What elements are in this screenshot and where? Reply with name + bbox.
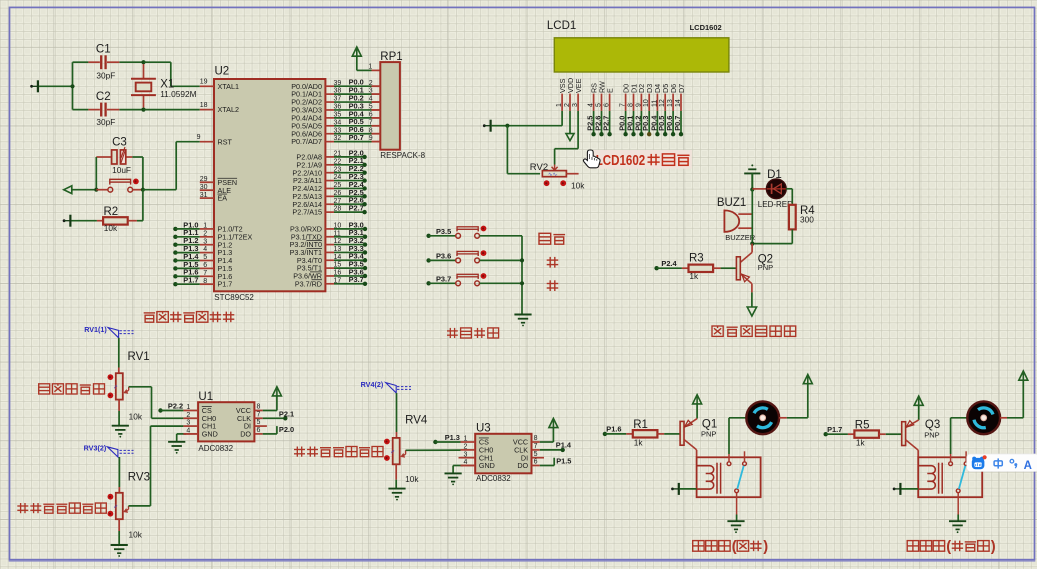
pin 8 VCC wire [254, 396, 277, 410]
svg-text:5: 5 [257, 419, 261, 426]
svg-text:E: E [605, 88, 614, 93]
svg-text:1: 1 [368, 64, 372, 71]
LCD pin 9 D2 [633, 84, 646, 137]
power terminal (U3) [549, 418, 558, 428]
svg-text:6: 6 [534, 459, 538, 466]
svg-text:P1.5: P1.5 [556, 456, 571, 465]
net P3.7 wire [325, 275, 367, 286]
wire (VEE) [555, 111, 579, 165]
net P0.4 wire [325, 109, 380, 118]
svg-text:37: 37 [334, 96, 342, 103]
power terminal (U1) [272, 387, 281, 397]
ground (relay2) [949, 521, 966, 533]
svg-text:3: 3 [572, 103, 579, 107]
svg-text:7: 7 [203, 270, 207, 277]
wire (RV1 wiper to CH0) [129, 387, 184, 419]
potentiometer RV4 [384, 414, 428, 484]
wire [507, 126, 540, 174]
svg-text:LCD1602: LCD1602 [690, 23, 722, 32]
svg-text:RST: RST [218, 137, 233, 146]
svg-text:P1.7: P1.7 [218, 280, 233, 289]
ground tap (crystal net) [30, 80, 72, 92]
svg-text:31: 31 [200, 192, 208, 199]
ADC U1 ADC0832 [183, 391, 254, 453]
svg-text:4: 4 [203, 246, 207, 253]
node [141, 188, 145, 192]
wire [144, 109, 200, 111]
svg-text:DO: DO [240, 430, 251, 439]
ground (U1) [168, 442, 185, 454]
pin 1 / net P1.0 [173, 220, 214, 231]
svg-text:RV3(2): RV3(2) [84, 443, 107, 452]
caption: formaldehyde threshold [294, 447, 383, 457]
svg-text:U2: U2 [215, 66, 230, 78]
net P1.3 [433, 433, 460, 444]
svg-text:10k: 10k [129, 412, 143, 422]
svg-text:VEE: VEE [574, 78, 583, 93]
ground arrow (Q2) [747, 307, 756, 316]
resistor R4 [789, 205, 815, 230]
svg-text:P1.3: P1.3 [445, 433, 460, 442]
svg-text:38: 38 [334, 88, 342, 95]
wire [118, 457, 120, 487]
net P2.7 wire [325, 204, 366, 215]
svg-text:RP1: RP1 [380, 51, 402, 63]
svg-text:BUZ1: BUZ1 [717, 197, 746, 209]
svg-text:12: 12 [334, 238, 342, 245]
wire [752, 188, 767, 190]
LCD pin 2 VDD [564, 78, 575, 111]
power terminal down (VDD) [566, 111, 574, 141]
svg-text:24: 24 [334, 174, 342, 181]
pin 31 [200, 192, 214, 199]
caption: plus [547, 257, 559, 268]
svg-text:32: 32 [334, 135, 342, 142]
pin 29 [200, 176, 214, 183]
svg-text:Q1: Q1 [702, 418, 717, 430]
svg-text:∿: ∿ [114, 504, 120, 509]
LCD pin 13 D6 [665, 84, 678, 137]
svg-text:14: 14 [334, 254, 342, 261]
wire [118, 411, 120, 426]
net P3.4 wire [325, 252, 367, 263]
svg-text:D1: D1 [767, 169, 782, 181]
svg-text:U1: U1 [198, 391, 213, 403]
net P2.2 wire [325, 164, 366, 175]
wire [118, 531, 120, 545]
svg-text:300: 300 [800, 215, 814, 225]
net P2.1 [254, 410, 294, 421]
relay contacts [949, 451, 968, 514]
net P2.4 [654, 259, 682, 271]
svg-text:7: 7 [534, 443, 538, 450]
LCD pin 5 RW [594, 81, 607, 136]
relay coil [697, 466, 714, 489]
LCD pin 3 VEE [572, 78, 583, 110]
LCD pin 7 D0 [618, 84, 631, 137]
svg-text:(: ( [732, 539, 737, 555]
wire (VSS) [507, 111, 562, 126]
svg-text:6: 6 [604, 103, 611, 107]
svg-text:8: 8 [534, 435, 538, 442]
svg-text:(: ( [946, 539, 951, 555]
svg-text:P1.4: P1.4 [556, 441, 572, 450]
net P1.5 [532, 456, 572, 465]
crystal X1 [131, 64, 197, 108]
svg-text:27: 27 [334, 198, 342, 205]
wire (RV3 wiper to CH1) [129, 426, 184, 506]
node [520, 258, 524, 262]
pin 6 / net P1.5 [173, 260, 214, 271]
svg-text:P2.0: P2.0 [279, 425, 294, 434]
LCD pin 14 D7 [673, 84, 686, 137]
net P2.0 [254, 425, 294, 434]
svg-text:30pF: 30pF [96, 70, 115, 80]
svg-text:8: 8 [257, 404, 261, 411]
capacitor C2 [88, 91, 119, 127]
svg-text:25: 25 [334, 182, 342, 189]
net P2.1 wire [325, 156, 366, 167]
net P2.6 wire [325, 196, 366, 207]
svg-text:): ) [991, 539, 996, 555]
power terminal (motor2) [1019, 371, 1028, 381]
pin 8 VCC wire [532, 428, 554, 442]
svg-text:23: 23 [334, 166, 342, 173]
svg-text:LCD1: LCD1 [547, 20, 576, 32]
svg-text:P2.2: P2.2 [168, 402, 183, 411]
power terminal (Q1) [693, 395, 702, 419]
capacitor C1 [88, 44, 119, 81]
ground tap (relay2 coil) [893, 483, 919, 495]
potentiometer RV2 [530, 162, 585, 190]
svg-text:3: 3 [186, 420, 190, 427]
net P3.6 wire [325, 267, 367, 278]
caption: relay (fan) [693, 539, 769, 555]
net P0.1 wire [325, 86, 380, 95]
relay RL2 frame [918, 457, 982, 497]
buzzer BUZ1 [717, 197, 756, 242]
transistor Q3 PNP [902, 419, 941, 457]
svg-text:33: 33 [334, 127, 342, 134]
svg-text:P0.7: P0.7 [673, 116, 682, 131]
svg-text:RESPACK-8: RESPACK-8 [380, 151, 425, 160]
power terminal (motor1) [803, 375, 812, 385]
svg-text:C2: C2 [96, 91, 111, 103]
svg-text:4: 4 [588, 103, 595, 107]
wire (U1 GND) [177, 434, 198, 442]
svg-text:P3.7/RD: P3.7/RD [295, 279, 322, 288]
resistor R3 [682, 253, 737, 281]
svg-text:∿∿: ∿∿ [548, 172, 558, 178]
svg-text:15: 15 [334, 262, 342, 269]
wire [395, 480, 397, 489]
node [94, 188, 98, 192]
svg-text:18: 18 [200, 102, 208, 109]
svg-text:5: 5 [596, 103, 603, 107]
arrow terminal (reset) [64, 186, 97, 194]
svg-text:PNP: PNP [924, 430, 939, 439]
capacitor C3 [96, 137, 132, 175]
fan motor 2 [967, 401, 1000, 434]
net P0.5 wire [325, 117, 380, 126]
svg-text:22: 22 [334, 158, 342, 165]
MCU U2 STC89C52 [214, 66, 325, 303]
caption: independent keys [447, 328, 499, 338]
fan motor 1 [746, 401, 779, 434]
svg-text:10k: 10k [129, 529, 143, 539]
svg-text:PNP: PNP [701, 430, 716, 439]
pin 2 / net P1.1 [173, 228, 214, 239]
ground (relay1) [727, 521, 744, 533]
wire [736, 515, 738, 522]
svg-text:36: 36 [334, 104, 342, 111]
svg-text:34: 34 [334, 119, 342, 126]
ground (buttons) [514, 315, 531, 327]
svg-text:GND: GND [479, 461, 495, 470]
svg-text:6: 6 [257, 427, 261, 434]
potentiometer RV3 [108, 471, 150, 539]
svg-text:RV2: RV2 [530, 162, 548, 173]
svg-text:12: 12 [659, 99, 666, 107]
net P3.0 wire [325, 220, 367, 231]
ADC U3 ADC0832 [461, 422, 532, 483]
svg-text:30pF: 30pF [96, 117, 115, 127]
svg-text:16: 16 [334, 270, 342, 277]
pin 8 / net P1.7 [173, 276, 214, 287]
net P1.7 [824, 425, 848, 437]
caption: smoke threshold [39, 384, 105, 394]
power terminal (Q3) [914, 396, 923, 420]
wire (RST net) [143, 142, 200, 190]
svg-text:RV4(2): RV4(2) [361, 380, 384, 389]
IME toolbar [967, 454, 1037, 472]
svg-text:P2.7: P2.7 [349, 204, 364, 213]
caption: LCD1602 display [588, 150, 692, 169]
svg-text:10: 10 [643, 99, 650, 107]
net label RV4(2) [361, 380, 411, 393]
svg-text:8: 8 [628, 103, 635, 107]
node (C2/XTAL2) [141, 108, 145, 112]
net label RV1(1) [84, 325, 133, 338]
relay contacts [727, 451, 746, 514]
svg-text:11.0592M: 11.0592M [160, 89, 196, 99]
net P2.3 wire [325, 172, 366, 183]
net P2.2 [158, 402, 183, 413]
caption: sound-light alarm [712, 326, 796, 336]
svg-text:∿: ∿ [390, 449, 396, 454]
LCD pin 1 VSS [556, 78, 567, 110]
wire [751, 292, 753, 307]
node (C1/XTAL1) [141, 60, 145, 64]
svg-text:1k: 1k [634, 437, 644, 447]
push button P3.5 [426, 226, 522, 239]
ground (RV1) [112, 426, 129, 438]
mouse cursor [583, 150, 600, 168]
svg-text:19: 19 [200, 79, 208, 86]
svg-text:P3.5: P3.5 [436, 227, 451, 236]
svg-text:P2.7/A15: P2.7/A15 [292, 208, 322, 217]
svg-text:29: 29 [200, 176, 208, 183]
svg-text:10k: 10k [571, 180, 585, 190]
svg-text:13: 13 [667, 99, 674, 107]
svg-text:RV4: RV4 [405, 414, 428, 426]
wire [73, 62, 144, 109]
wire [957, 515, 959, 522]
net P2.4 wire [325, 180, 366, 191]
net P3.5 wire [325, 260, 367, 271]
svg-text:8: 8 [203, 278, 207, 285]
svg-text:6: 6 [203, 262, 207, 269]
resistor R5 [848, 420, 901, 448]
svg-text:11: 11 [651, 100, 658, 107]
svg-text:2: 2 [203, 230, 207, 237]
caption: MCU minimal system [144, 312, 235, 323]
svg-text:ADC0832: ADC0832 [476, 474, 511, 483]
wire [521, 236, 523, 314]
svg-text:1k: 1k [856, 438, 866, 448]
svg-text:P1.7: P1.7 [183, 276, 198, 285]
svg-text:A: A [1024, 460, 1032, 472]
wire [752, 229, 792, 243]
wire [779, 384, 808, 418]
net P3.3 wire [325, 244, 367, 255]
ground (RV4) [388, 489, 405, 501]
node (cap common) [70, 84, 74, 88]
pin 5 DI stub [532, 451, 545, 458]
caption: combustible gas threshold [17, 503, 106, 513]
resistor R1 [626, 419, 679, 447]
svg-text:PNP: PNP [758, 263, 773, 272]
svg-text:EA: EA [218, 194, 228, 203]
svg-text:39: 39 [334, 80, 342, 87]
relay core [717, 463, 721, 494]
svg-text:11: 11 [334, 230, 341, 237]
svg-text:2: 2 [564, 103, 571, 107]
wire [357, 64, 381, 71]
relay core [939, 463, 943, 494]
svg-text:BUZZER: BUZZER [725, 233, 756, 242]
svg-text:7: 7 [620, 103, 627, 107]
svg-text:1: 1 [463, 436, 467, 443]
svg-text:C1: C1 [96, 44, 111, 56]
transistor Q2 PNP [736, 244, 773, 293]
svg-text:C3: C3 [112, 137, 127, 149]
svg-text:28: 28 [334, 206, 342, 213]
svg-text:R1: R1 [633, 419, 648, 431]
svg-text:9: 9 [635, 103, 642, 107]
svg-text:Q3: Q3 [925, 419, 940, 431]
svg-text:P3.7: P3.7 [436, 274, 451, 283]
wire (contact to motor) [951, 418, 968, 454]
svg-text:17: 17 [334, 277, 342, 284]
svg-text:RV3: RV3 [128, 471, 150, 483]
push button P3.6 [426, 250, 522, 263]
ground tap (LCD) [483, 120, 508, 132]
net P0.0 wire [325, 78, 380, 87]
wire [118, 338, 120, 368]
svg-text:∿: ∿ [114, 384, 120, 389]
pin 4 / net P1.3 [173, 244, 214, 255]
net label RV3(2) [84, 443, 134, 457]
net P2.5 wire [325, 188, 366, 199]
svg-text:P0.7: P0.7 [349, 133, 364, 142]
wire [1000, 380, 1023, 417]
caption: set [539, 233, 565, 244]
wire (contact to motor) [729, 418, 746, 454]
LCD pin 4 RS [586, 83, 599, 137]
pin 19 (XTAL1) [200, 79, 214, 87]
wire [751, 190, 753, 244]
svg-text:35: 35 [334, 111, 342, 118]
wire [144, 62, 200, 86]
pin 18 (XTAL2) [200, 102, 214, 110]
net P0.7 wire [325, 133, 380, 142]
power terminal (buzzer) [744, 164, 760, 189]
node [505, 124, 509, 128]
svg-text:21: 21 [334, 151, 342, 158]
caption: minus [547, 280, 559, 291]
svg-text:10uF: 10uF [112, 165, 131, 175]
svg-text:P3.7: P3.7 [349, 275, 364, 284]
ground (U3) [445, 473, 462, 485]
net P1.6 [603, 425, 627, 436]
svg-text:DO: DO [517, 461, 528, 470]
pin 7 / net P1.6 [173, 268, 214, 279]
svg-text:STC89C52: STC89C52 [214, 293, 254, 302]
pin 5 / net P1.4 [173, 252, 214, 263]
net P0.3 wire [325, 101, 380, 110]
svg-text:P2.1: P2.1 [279, 410, 294, 419]
wire [96, 157, 143, 190]
svg-text:7: 7 [257, 411, 261, 418]
svg-text:5: 5 [534, 451, 538, 458]
LCD pin 11 D4 [649, 84, 662, 137]
transistor Q1 PNP [680, 418, 717, 457]
resistor R2 [97, 190, 143, 233]
caption: relay (purifier) [907, 539, 996, 555]
svg-text:P3.6: P3.6 [436, 251, 451, 260]
svg-text:P0.7/AD7: P0.7/AD7 [291, 137, 322, 146]
LCD pin 10 D3 [641, 84, 654, 137]
net P3.2 wire [325, 236, 367, 247]
svg-text:XTAL1: XTAL1 [218, 82, 239, 91]
wire [73, 109, 144, 111]
pin 9 (RST) [197, 134, 214, 142]
svg-text:P1.7: P1.7 [827, 425, 842, 434]
net P0.2 wire [325, 93, 380, 102]
resistor pack RP1 RESPACK-8 [372, 51, 426, 160]
svg-text:ADC0832: ADC0832 [198, 444, 233, 453]
node [520, 281, 524, 285]
net P1.4 [532, 441, 572, 452]
svg-text:): ) [763, 539, 768, 555]
net P2.0 wire [325, 148, 366, 159]
pin 3 / net P1.2 [173, 236, 214, 247]
LCD pin 6 E [602, 88, 615, 136]
svg-text:P2.7: P2.7 [602, 116, 611, 131]
svg-text:13: 13 [334, 246, 342, 253]
svg-text:LCD1602: LCD1602 [596, 152, 646, 169]
svg-text:14: 14 [675, 99, 682, 107]
svg-text:10k: 10k [405, 474, 419, 484]
wire [396, 393, 398, 432]
svg-text:26: 26 [334, 190, 342, 197]
ground tap (relay1 coil) [671, 483, 697, 495]
push button P3.7 [426, 273, 522, 286]
power terminal (RP1) [352, 47, 361, 70]
pin 3 CH1 stub [459, 457, 476, 459]
svg-text:U3: U3 [476, 422, 491, 434]
